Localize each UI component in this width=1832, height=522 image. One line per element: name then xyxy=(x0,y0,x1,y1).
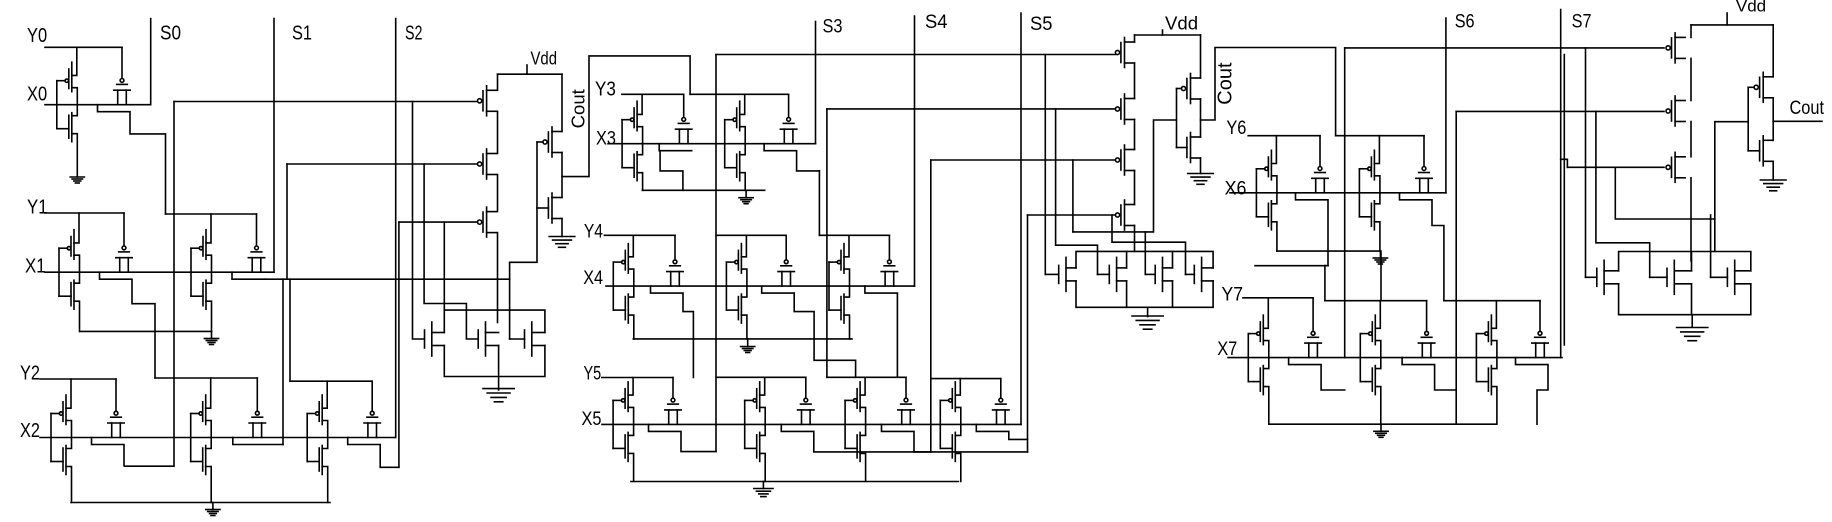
transistor M27 (PMOS bit4a) xyxy=(613,235,634,286)
transistor M2 (NMOS bit0) xyxy=(57,105,78,177)
wire cluster1 drain rail xyxy=(444,310,545,332)
wire bit3 source rail xyxy=(642,189,764,191)
wire S2 bus xyxy=(395,19,397,438)
wire S7 companion c xyxy=(1563,55,1565,346)
wire bit2 c2 top xyxy=(155,377,257,379)
wire carry3 chain b xyxy=(1690,58,1692,100)
wire gate link xyxy=(190,248,192,296)
transistor M42 (PMOS bit5c) xyxy=(845,377,866,424)
wire Vdd rail carry2 xyxy=(1135,34,1201,36)
transistor M18 (pass PMOS bit2c) xyxy=(364,381,380,437)
svg-text:Cout: Cout xyxy=(1215,62,1237,105)
transistor M9 (pass PMOS bit1b) xyxy=(248,214,264,272)
wire inverter3 vdd xyxy=(1772,25,1774,77)
wire gate link xyxy=(1358,169,1360,217)
transistor N4 (cluster2) xyxy=(1045,257,1076,291)
transistor M39 (PMOS bit5b) xyxy=(745,377,766,424)
svg-text:X1: X1 xyxy=(25,255,46,278)
transistor N8 (cluster3) xyxy=(1586,260,1619,294)
transistor N10 (cluster3) xyxy=(1711,260,1751,294)
wire bit4 c3 top xyxy=(819,234,889,236)
transistor M25 (NMOS bit3b) xyxy=(725,144,746,191)
wire S0 bus xyxy=(150,19,152,105)
wire bit3a stair xyxy=(660,151,683,191)
wire Y2 xyxy=(40,378,116,380)
wire gate link xyxy=(724,120,726,168)
wire bit6b out xyxy=(1400,193,1444,301)
wire Vdd rail carry1 xyxy=(498,73,563,75)
label Y4 xyxy=(584,221,603,242)
transistor N7 (cluster2) xyxy=(1186,257,1214,291)
wire bit5b out xyxy=(781,424,931,452)
wire X3 xyxy=(608,143,816,145)
transistor M47 (pass PMOS bit5d) xyxy=(993,379,1009,425)
wire inverter2 gate link xyxy=(1176,89,1178,148)
label Cout carry3 xyxy=(1790,98,1825,119)
transistor M38 (pass PMOS bit5a) xyxy=(665,378,681,425)
transistor M32 (pass PMOS bit4b) xyxy=(778,235,794,286)
wire gate link xyxy=(56,81,58,129)
wire carry3 branch xyxy=(1596,111,1650,277)
wire gate link xyxy=(1255,169,1257,217)
wire Y7 xyxy=(1243,297,1313,299)
label X7 xyxy=(1217,339,1237,360)
wire carry3 chain c xyxy=(1690,122,1692,157)
wire T4c2 riser xyxy=(1027,215,1029,452)
wire bit5 c4 top xyxy=(931,378,1001,380)
label S2 xyxy=(405,22,423,45)
wire bit2c out xyxy=(348,438,399,468)
svg-text:X3: X3 xyxy=(596,128,616,149)
ground bit0 xyxy=(70,177,84,183)
wire bit4 source rail xyxy=(633,338,852,340)
wire N2 gate riser xyxy=(424,164,478,339)
wire X5 xyxy=(602,423,1021,425)
transistor M17 (NMOS bit2c) xyxy=(307,438,328,503)
wire carry2 chain b xyxy=(1134,63,1136,99)
wire T3 riser xyxy=(398,222,400,467)
wire carry3 chain d xyxy=(1690,178,1692,261)
label Vdd carry2 xyxy=(1165,13,1198,34)
wire cluster2 xnor riser xyxy=(1072,160,1074,232)
wire gate link xyxy=(1359,334,1361,382)
svg-text:Y6: Y6 xyxy=(1226,118,1246,139)
ground bit1 xyxy=(204,331,218,344)
wire inverter1 out xyxy=(562,56,690,177)
wire bit5c out xyxy=(882,424,1028,452)
wire T2 gate net xyxy=(287,163,478,165)
wire Vdd lead carry1 xyxy=(526,65,528,74)
transistor N5 (cluster2) xyxy=(1098,257,1127,291)
label X0 xyxy=(27,83,47,106)
wire inverter3 input xyxy=(1715,122,1748,252)
label Vdd carry3 xyxy=(1736,0,1766,16)
wire cluster2 N7 gate feed xyxy=(1112,215,1186,274)
wire cluster2 N6 gate feed xyxy=(1144,232,1146,275)
wire S7 bus xyxy=(1560,10,1562,358)
transistor M30 (PMOS bit4b) xyxy=(726,235,747,286)
wire cluster3 src N9 xyxy=(1691,284,1693,315)
transistor M7 (PMOS bit1b) xyxy=(191,214,212,272)
wire carry2 chain d xyxy=(1134,171,1136,205)
transistor M54 (NMOS bit6b) xyxy=(1359,193,1380,251)
label S5 xyxy=(1030,14,1053,35)
wire carry2 T3 gate net xyxy=(931,159,1116,161)
transistor M51 (NMOS bit6a) xyxy=(1256,193,1277,251)
transistor M63 (NMOS bit7c) xyxy=(1476,358,1497,425)
svg-text:S7: S7 xyxy=(1572,12,1592,33)
wire carry3 T2 riser xyxy=(1455,111,1457,423)
wire bit3b out xyxy=(764,144,819,171)
transistor M16 (PMOS bit2c) xyxy=(307,381,328,437)
wire cluster2 drain rail xyxy=(1076,251,1213,268)
wire T3c2 riser xyxy=(930,160,932,452)
label S1 xyxy=(292,22,312,45)
wire inverter2 out xyxy=(1201,48,1336,136)
transistor M50 (PMOS bit6a) xyxy=(1256,136,1277,193)
wire bit4c out xyxy=(865,286,898,377)
wire carry1 chain a xyxy=(497,74,499,90)
transistor M59 (PMOS bit7b) xyxy=(1360,301,1381,358)
wire bit3a riser xyxy=(715,55,717,452)
wire carry1 chain c xyxy=(497,175,499,212)
wire bit2 c3 feeder xyxy=(289,279,291,381)
svg-text:Y2: Y2 xyxy=(20,362,40,385)
wire bit5d out xyxy=(976,424,1027,439)
wire carry3 T1 gate net xyxy=(1345,47,1664,49)
wire carry2 chain a xyxy=(1134,35,1136,42)
wire inverter3 mid xyxy=(1772,98,1774,141)
wire bit2b out xyxy=(233,438,283,445)
wire bit0 xor out xyxy=(98,105,166,214)
svg-text:Cout: Cout xyxy=(568,89,589,128)
transistor M43 (NMOS bit5c) xyxy=(845,424,866,481)
wire cluster2 src N6 xyxy=(1172,281,1174,307)
transistor M36 (PMOS bit5a) xyxy=(613,378,634,425)
wire N1 gate riser xyxy=(413,102,425,340)
transistor M8 (NMOS bit1b) xyxy=(191,272,212,331)
transistor M11 (NMOS bit2a) xyxy=(51,438,72,503)
wire carry2 T1 gate net xyxy=(716,54,1116,56)
svg-text:Y0: Y0 xyxy=(27,24,47,47)
wire bit5 c3 top xyxy=(827,376,906,378)
transistor M57 (NMOS bit7a) xyxy=(1248,358,1269,425)
svg-text:Y7: Y7 xyxy=(1222,284,1244,305)
label Y0 xyxy=(27,24,47,47)
label X1 xyxy=(25,255,46,278)
ground bit2 xyxy=(206,503,220,516)
wire inverter1 gate link xyxy=(510,142,537,339)
transistor M58 (pass PMOS bit7a) xyxy=(1305,298,1321,358)
transistor T5 (PMOS carry2) xyxy=(1115,94,1134,124)
label Y6 xyxy=(1226,118,1246,139)
wire bit4 c2 top xyxy=(716,234,786,236)
ground inverter1 xyxy=(549,237,575,248)
wire Vdd lead carry2 xyxy=(1162,30,1164,35)
wire bit3 xnor riser xyxy=(826,109,828,377)
wire bit1b out xyxy=(232,272,265,279)
wire bit6 c2 top xyxy=(1336,135,1424,137)
wire gate link xyxy=(58,248,60,296)
svg-text:Y3: Y3 xyxy=(595,77,616,100)
label S6 xyxy=(1455,12,1475,33)
wire gate link xyxy=(744,400,746,448)
wire gate link xyxy=(844,400,846,448)
svg-text:Vdd: Vdd xyxy=(1165,13,1198,34)
wire bit7c out xyxy=(1516,358,1549,425)
transistor M10 (PMOS bit2a) xyxy=(51,379,72,438)
wire carry1 chain b xyxy=(497,111,499,153)
ground bit3 xyxy=(739,190,753,203)
wire carry3 T3 gate net xyxy=(1567,166,1664,168)
label Cout carry2 xyxy=(1215,62,1237,105)
label Y1 xyxy=(27,196,48,219)
svg-text:S4: S4 xyxy=(925,12,948,33)
transistor T3 (PMOS carry1) xyxy=(478,207,497,237)
transistor M21 (PMOS bit3a) xyxy=(622,94,643,143)
wire gate link xyxy=(190,414,192,462)
wire bit7 c2 feeder2 xyxy=(1324,266,1326,301)
wire gate link xyxy=(1247,334,1249,382)
wire Vdd rail carry3 xyxy=(1691,24,1773,26)
wire bit1a out xyxy=(100,272,156,378)
wire bit4b out xyxy=(762,286,856,377)
wire xnor1 riser xyxy=(282,279,284,444)
wire gate link xyxy=(828,262,830,310)
wire inverter3 nmos gate xyxy=(1748,150,1759,152)
svg-text:X4: X4 xyxy=(583,268,603,289)
ground bit4 xyxy=(741,339,755,353)
wire inverter2 input xyxy=(1073,120,1177,232)
wire inverter1 pmos gate xyxy=(537,141,543,143)
wire bit7 source rail xyxy=(1269,423,1496,425)
transistor M66 (inverter3 NMOS) xyxy=(1760,136,1774,166)
transistor M28 (NMOS bit4a) xyxy=(613,286,634,339)
wire bit1 c2 top xyxy=(166,213,257,215)
wire bit1 source rail xyxy=(80,330,212,332)
label Y3 xyxy=(595,77,616,100)
wire bit4a out xyxy=(651,286,694,377)
transistor M49 (inverter2 NMOS) xyxy=(1187,133,1201,163)
transistor M53 (PMOS bit6b) xyxy=(1359,136,1380,193)
wire cluster2 drain N5 xyxy=(1126,251,1128,268)
transistor M12 (pass PMOS bit2a) xyxy=(108,379,124,438)
ground inverter3 xyxy=(1760,180,1786,191)
label S0 xyxy=(160,22,181,45)
wire gate link xyxy=(50,414,52,462)
wire inverter3 nmos src xyxy=(1772,161,1774,180)
transistor M37 (NMOS bit5a) xyxy=(613,424,634,481)
wire inverter3 out xyxy=(1773,120,1822,122)
wire cluster3 drain rail xyxy=(1619,252,1751,271)
wire cluster3 drain N9 xyxy=(1691,252,1693,271)
transistor T7 (PMOS carry2) xyxy=(1115,200,1134,230)
wire bit7a out xyxy=(1289,358,1345,390)
wire bit3 c2 top xyxy=(690,93,789,95)
transistor M4 (PMOS bit1a) xyxy=(59,213,80,272)
wire bit7 c2 top xyxy=(1325,300,1427,302)
svg-text:Vdd: Vdd xyxy=(1736,0,1766,16)
wire bit5 c2 top xyxy=(716,376,806,378)
wire cluster3 src rail xyxy=(1619,284,1751,315)
svg-text:S0: S0 xyxy=(160,22,181,45)
wire cluster2 src N5 xyxy=(1126,281,1128,307)
svg-text:X5: X5 xyxy=(582,409,602,430)
svg-text:X0: X0 xyxy=(27,83,47,106)
transistor T2 (PMOS carry1) xyxy=(478,149,497,179)
transistor T6 (PMOS carry2) xyxy=(1115,145,1134,175)
transistor M65 (inverter3 PMOS) xyxy=(1754,72,1773,102)
svg-text:S1: S1 xyxy=(292,22,312,45)
wire X1 xyxy=(45,271,274,273)
transistor N6 (cluster2) xyxy=(1145,257,1172,291)
transistor M48 (inverter2 PMOS) xyxy=(1181,74,1200,104)
label S7 xyxy=(1572,12,1592,33)
label X3 xyxy=(596,128,616,149)
wire bit6a out xyxy=(1296,193,1329,266)
wire bit7 c3 top xyxy=(1444,300,1540,302)
wire S6 bus xyxy=(1445,18,1447,193)
wire T2 gate riser xyxy=(286,164,288,279)
transistor T9 (PMOS carry3) xyxy=(1666,96,1685,126)
wire bit5a out xyxy=(649,424,717,451)
wire inverter2 mid xyxy=(1200,99,1202,137)
wire S5 bus xyxy=(1020,13,1022,424)
svg-text:S2: S2 xyxy=(405,22,423,45)
transistor M55 (pass PMOS bit6b) xyxy=(1416,136,1432,193)
wire cluster2 N4 gate feed xyxy=(1044,55,1046,275)
wire bit3a out xyxy=(659,144,692,151)
transistor T8 (PMOS carry3) xyxy=(1666,33,1685,63)
wire X0 xyxy=(45,104,151,106)
wire inverter1 nmos src xyxy=(561,219,563,237)
label Y2 xyxy=(20,362,40,385)
svg-text:Y5: Y5 xyxy=(584,363,602,384)
wire gate link xyxy=(1475,334,1477,382)
transistor M6 (pass PMOS bit1a) xyxy=(116,213,132,272)
wire Y0 xyxy=(45,46,122,48)
wire X2 xyxy=(40,437,396,439)
transistor M33 (PMOS bit4c) xyxy=(829,235,850,286)
transistor M1 (PMOS bit0) xyxy=(57,47,78,104)
transistor M26 (pass PMOS bit3b) xyxy=(780,94,796,143)
wire T3 gate net xyxy=(399,221,478,223)
wire X6 xyxy=(1230,192,1446,194)
transistor M23 (pass PMOS bit3a) xyxy=(676,94,692,143)
label X5 xyxy=(582,409,602,430)
wire S7 companion b xyxy=(1585,48,1587,277)
wire cluster2 drain N6 xyxy=(1172,251,1174,268)
wire X4 xyxy=(606,285,915,287)
svg-text:S3: S3 xyxy=(823,17,843,38)
wire bit3b riser xyxy=(818,171,820,235)
transistor T10 (PMOS carry3) xyxy=(1666,152,1685,182)
transistor M46 (NMOS bit5d) xyxy=(940,424,961,481)
wire inverter2 nmos src xyxy=(1200,158,1202,174)
transistor M31 (NMOS bit4b) xyxy=(726,286,747,339)
wire carry3 T3 branch xyxy=(1615,167,1715,219)
wire cluster1 drain link N1 up xyxy=(443,222,445,310)
wire cluster3 N10 gate feed xyxy=(1710,215,1712,277)
label Vdd carry1 xyxy=(531,48,558,69)
wire carry3 T2 gate net xyxy=(1456,110,1664,112)
wire bit2a out xyxy=(92,102,175,467)
svg-text:Y4: Y4 xyxy=(584,221,603,242)
transistor N1 (cluster1) xyxy=(425,322,445,356)
wire inverter3 gate link xyxy=(1747,87,1749,151)
label S3 xyxy=(823,17,843,38)
wire bit6a out ext xyxy=(1255,265,1328,267)
wire Y6 xyxy=(1248,135,1320,137)
transistor N3 (cluster1) xyxy=(510,322,545,356)
transistor M60 (NMOS bit7b) xyxy=(1360,358,1381,425)
label Y7 xyxy=(1222,284,1244,305)
transistor M45 (PMOS bit5d) xyxy=(940,379,961,425)
wire inverter1 vdd xyxy=(561,74,563,131)
label X4 xyxy=(583,268,603,289)
wire cluster2 N5 gate feed xyxy=(1056,109,1098,275)
wire gate link xyxy=(621,120,623,168)
svg-text:X6: X6 xyxy=(1225,178,1247,199)
transistor M35 (pass PMOS bit4c) xyxy=(881,235,897,286)
wire bit2 c3 top xyxy=(290,380,372,382)
wire T1 gate net xyxy=(174,101,478,103)
transistor M29 (pass PMOS bit4a) xyxy=(667,235,683,286)
transistor M62 (PMOS bit7c) xyxy=(1476,301,1497,358)
wire cluster1 src rail xyxy=(444,346,545,377)
svg-text:X2: X2 xyxy=(20,419,40,442)
transistor M20 (inverter1 NMOS) xyxy=(548,193,562,223)
ground cluster3 xyxy=(1677,328,1708,341)
transistor M40 (NMOS bit5b) xyxy=(745,424,766,481)
wire Vdd lead carry3 xyxy=(1726,13,1728,25)
transistor T4 (PMOS carry2) xyxy=(1115,38,1134,68)
transistor M5 (NMOS bit1a) xyxy=(59,272,80,331)
wire S4 bus xyxy=(914,16,916,286)
wire carry1 chain d xyxy=(497,233,499,323)
wire inverter3 pmos gate xyxy=(1748,86,1754,88)
transistor M22 (NMOS bit3a) xyxy=(622,144,643,191)
wire inverter1 nmos gate xyxy=(537,207,548,209)
wire Y4 xyxy=(604,234,675,236)
wire gate link xyxy=(612,262,614,310)
transistor N9 (cluster3) xyxy=(1650,260,1692,294)
svg-text:S6: S6 xyxy=(1455,12,1475,33)
wire cluster2 gnd lead xyxy=(1147,307,1149,316)
wire S3 bus xyxy=(815,22,817,144)
ground cluster2 xyxy=(1132,316,1163,329)
transistor M61 (pass PMOS bit7b) xyxy=(1418,301,1434,358)
transistor M14 (NMOS bit2b) xyxy=(191,438,212,503)
wire inverter1 mid xyxy=(561,153,563,198)
transistor M34 (NMOS bit4c) xyxy=(829,286,850,339)
wire gate link xyxy=(612,400,614,448)
transistor M64 (pass PMOS bit7c) xyxy=(1532,301,1548,358)
svg-text:S5: S5 xyxy=(1030,14,1053,35)
wire Y1 xyxy=(45,212,124,214)
wire cluster2 src rail xyxy=(1076,281,1213,307)
wire carry2 chain c xyxy=(1134,120,1136,150)
wire gate link xyxy=(306,414,308,462)
transistor T1 (PMOS carry1) xyxy=(478,86,497,116)
transistor M3 (pass PMOS bit0) xyxy=(114,47,130,104)
wire inverter2 nmos gate xyxy=(1177,147,1187,149)
wire bit7b out xyxy=(1402,358,1456,390)
wire inverter2 vdd xyxy=(1200,35,1202,78)
wire cluster3 gnd lead xyxy=(1691,315,1693,327)
transistor M52 (pass PMOS bit6a) xyxy=(1312,136,1328,193)
wire gate link xyxy=(725,262,727,310)
